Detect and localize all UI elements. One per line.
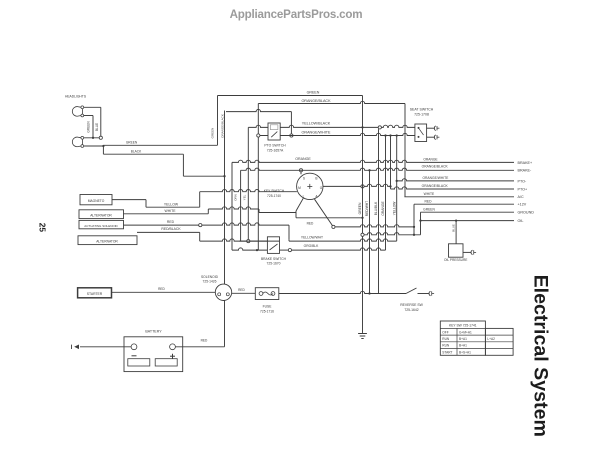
svg-text:RED: RED	[158, 287, 165, 291]
svg-text:PTO+: PTO+	[518, 187, 528, 191]
svg-text:KEY SW 725-1741: KEY SW 725-1741	[449, 323, 477, 327]
svg-text:B+A1: B+A1	[459, 344, 467, 348]
svg-text:RED: RED	[238, 288, 245, 292]
svg-text:725-1657A: 725-1657A	[267, 148, 284, 152]
svg-text:BATTERY: BATTERY	[145, 330, 162, 334]
svg-text:OIL PRESSURE: OIL PRESSURE	[444, 258, 467, 262]
svg-text:ORANGE/BLACK: ORANGE/BLACK	[422, 164, 449, 168]
svg-text:B: B	[315, 177, 317, 181]
svg-text:B+A1: B+A1	[459, 337, 467, 341]
svg-text:A/C: A/C	[518, 195, 524, 199]
svg-text:GREEN: GREEN	[307, 91, 320, 95]
svg-text:25: 25	[38, 223, 48, 233]
svg-text:PTO SWITCH: PTO SWITCH	[264, 144, 286, 148]
svg-text:STARTER: STARTER	[87, 292, 103, 296]
svg-text:KEY SWITCH: KEY SWITCH	[264, 189, 285, 193]
svg-text:+12V: +12V	[518, 203, 527, 207]
svg-text:ORANGE/WHITE: ORANGE/WHITE	[422, 176, 449, 180]
svg-text:G+M+A1: G+M+A1	[459, 330, 472, 334]
svg-text:AppliancePartsPros.com: AppliancePartsPros.com	[230, 8, 363, 21]
svg-text:SEAT SWITCH: SEAT SWITCH	[410, 108, 434, 112]
svg-text:RED: RED	[201, 339, 208, 343]
svg-text:ACTUATING SOLENOID: ACTUATING SOLENOID	[84, 224, 118, 228]
svg-text:BLACK: BLACK	[131, 150, 142, 154]
svg-text:OIL: OIL	[518, 219, 524, 223]
svg-text:BLU/BLK: BLU/BLK	[374, 201, 378, 215]
svg-text:BRAKE-: BRAKE-	[518, 169, 533, 173]
svg-text:S: S	[303, 177, 305, 181]
svg-text:ORG/BLK: ORG/BLK	[304, 244, 319, 248]
svg-text:ORANGE/WHITE: ORANGE/WHITE	[302, 131, 331, 135]
svg-text:ORANGE/BLACK: ORANGE/BLACK	[422, 184, 449, 188]
svg-text:YEL: YEL	[242, 194, 246, 200]
svg-text:GREEN: GREEN	[87, 121, 91, 133]
svg-text:WHITE: WHITE	[165, 209, 177, 213]
svg-text:RED: RED	[167, 220, 175, 224]
svg-text:725-1426: 725-1426	[203, 280, 217, 284]
svg-text:YELLOW: YELLOW	[392, 201, 396, 216]
svg-text:RED: RED	[307, 221, 314, 225]
svg-text:725-1642: 725-1642	[404, 308, 418, 312]
svg-text:FUSE: FUSE	[263, 305, 273, 309]
svg-text:START: START	[442, 350, 452, 354]
svg-text:RUN: RUN	[442, 337, 450, 341]
svg-text:SOLENOID: SOLENOID	[201, 275, 219, 279]
svg-text:ORANGE/BLACK: ORANGE/BLACK	[301, 99, 331, 103]
svg-text:GREEN: GREEN	[126, 141, 138, 145]
svg-text:ORANGE: ORANGE	[381, 201, 385, 216]
svg-text:ORANGE: ORANGE	[295, 157, 311, 161]
svg-text:ORANGE: ORANGE	[423, 158, 438, 162]
svg-text:GREEN: GREEN	[358, 202, 362, 214]
svg-text:BRAKE+: BRAKE+	[518, 161, 533, 165]
svg-text:GROUND: GROUND	[518, 211, 535, 215]
svg-text:M: M	[298, 186, 301, 190]
svg-text:BRAKE SWITCH: BRAKE SWITCH	[261, 257, 287, 261]
svg-text:ORANGE/BLACK: ORANGE/BLACK	[220, 114, 224, 138]
svg-text:725-1740: 725-1740	[267, 194, 281, 198]
svg-text:RED/WHT: RED/WHT	[365, 201, 369, 216]
svg-text:YELLOW: YELLOW	[164, 203, 179, 207]
svg-text:BLUE: BLUE	[452, 224, 456, 232]
svg-text:725-1708: 725-1708	[414, 113, 429, 117]
svg-text:ORN: ORN	[234, 194, 238, 200]
svg-text:REVERSE SW: REVERSE SW	[400, 303, 423, 307]
svg-text:L+A2: L+A2	[487, 337, 495, 341]
svg-text:ALTERNATOR: ALTERNATOR	[96, 239, 118, 243]
svg-text:MAGNETO: MAGNETO	[88, 199, 105, 203]
svg-text:RED: RED	[425, 199, 433, 203]
svg-text:Electrical System: Electrical System	[530, 275, 552, 437]
svg-text:B+S+A1: B+S+A1	[459, 350, 471, 354]
svg-text:L: L	[303, 195, 305, 199]
svg-text:BLUE: BLUE	[95, 123, 99, 131]
svg-text:725-1670: 725-1670	[267, 262, 281, 266]
svg-text:RUN: RUN	[442, 344, 450, 348]
svg-text:ALTERNATOR: ALTERNATOR	[90, 213, 112, 217]
svg-text:YELLOW/BLACK: YELLOW/BLACK	[302, 122, 331, 126]
svg-text:YELLOW/WHT: YELLOW/WHT	[301, 235, 323, 239]
svg-text:RED/BLACK: RED/BLACK	[161, 227, 181, 231]
svg-text:725-1716: 725-1716	[260, 309, 274, 313]
svg-text:GREEN: GREEN	[423, 207, 435, 211]
svg-text:OFF: OFF	[442, 330, 448, 334]
svg-text:WHITE: WHITE	[424, 192, 435, 196]
svg-text:GREEN: GREEN	[211, 128, 215, 139]
svg-text:HEADLIGHTS: HEADLIGHTS	[65, 95, 87, 99]
svg-text:PTO-: PTO-	[518, 179, 528, 183]
